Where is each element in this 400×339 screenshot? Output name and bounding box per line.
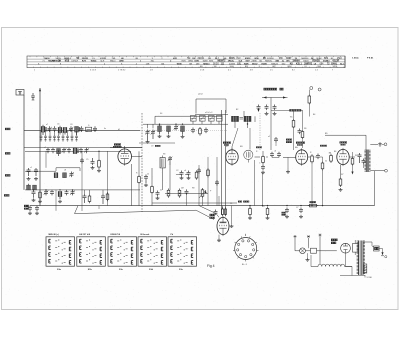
svg-text:W167: W167 [252, 63, 258, 65]
ground G10 [287, 170, 289, 172]
svg-text:WB4: WB4 [287, 66, 291, 68]
svg-text:R5H3B: R5H3B [312, 61, 320, 63]
resistor R2b [88, 196, 91, 201]
inductor L3 [63, 128, 67, 133]
label EL84 [340, 141, 348, 143]
aux antenna arrow [39, 88, 41, 206]
dial scale row line 1 [27, 58, 345, 60]
capacitor C30 [157, 191, 159, 193]
svg-text:a1 b2 c3: a1 b2 c3 [205, 112, 212, 114]
wire screen [352, 152, 354, 157]
wire row2 main [25, 150, 131, 152]
capacitor C44 [299, 129, 301, 131]
inductor L1 with core [41, 127, 45, 133]
capacitor C43 [274, 105, 276, 107]
wire link C [107, 151, 109, 205]
svg-text:a2: a2 [268, 136, 270, 138]
wire af line [152, 202, 237, 204]
svg-text:K5R9: K5R9 [245, 58, 251, 60]
svg-text:Fig 4: Fig 4 [207, 264, 215, 268]
ground G3 [92, 166, 94, 168]
resistor R4 [151, 187, 154, 193]
wire ps bottom [340, 275, 365, 277]
svg-text:8 2: 8 2 [292, 70, 295, 72]
wire af coupling [308, 156, 310, 158]
wire eye lead 1 [75, 206, 79, 214]
svg-text:1M99H: 1M99H [292, 61, 300, 63]
svg-text:B6: B6 [334, 151, 336, 153]
inductor L12 [158, 126, 162, 132]
svg-text:H39K: H39K [261, 63, 267, 65]
wire link E [198, 165, 200, 206]
resistor R14 [308, 96, 311, 103]
label EF85 [223, 142, 231, 144]
svg-text:5k: 5k [325, 160, 327, 162]
svg-text:M44: M44 [230, 66, 234, 68]
capacitor C35 [262, 165, 264, 167]
wire V1 plate [124, 146, 126, 149]
svg-text:01: 01 [86, 131, 88, 133]
wire row2 top [24, 147, 142, 149]
tuning gang left side [141, 113, 143, 212]
svg-text:1: 1 [34, 70, 35, 72]
wire main bus B+ [30, 205, 375, 207]
svg-text:1M: 1M [329, 153, 332, 155]
wire link G [216, 157, 218, 206]
wire link H [254, 160, 256, 206]
wire row1 dotted extension [140, 130, 228, 132]
IF transformer T1 [232, 116, 239, 121]
svg-text:R1: R1 [230, 203, 232, 205]
trimmer C4 [70, 126, 72, 128]
svg-text:4 1: 4 1 [228, 70, 231, 72]
variable capacitor C29 [169, 156, 171, 158]
dial scale row line 3 [27, 64, 345, 66]
wire IF shield dashed [259, 113, 261, 150]
tube V6 rectifier [341, 243, 351, 253]
label EM80 [210, 214, 215, 216]
svg-text:1 8: 1 8 [150, 70, 153, 72]
resistor R9 [311, 156, 314, 162]
screen resistor R13 [351, 159, 354, 165]
label det [320, 145, 327, 147]
inductor L13 [167, 126, 171, 132]
output transformer T3 [365, 150, 367, 173]
ground G13 [307, 258, 309, 260]
svg-text:23MK: 23MK [251, 61, 257, 63]
wire gang top [195, 114, 228, 116]
svg-text:LM7: LM7 [272, 66, 276, 68]
resistor R2 [39, 192, 42, 198]
svg-text:c4: c4 [184, 170, 186, 172]
inductor L7 [54, 173, 58, 178]
svg-text:5B9S: 5B9S [55, 58, 61, 60]
svg-text:31S7: 31S7 [286, 58, 292, 60]
wire mid link line [139, 142, 175, 144]
wire R1 drop [98, 151, 100, 158]
capacitor C41 [379, 142, 381, 147]
wire row3 [25, 189, 140, 191]
dial scale ticks [30, 56, 344, 68]
capacitor C1 antenna [32, 93, 34, 96]
junction dots row1 [49, 130, 50, 131]
capacitor C21d [29, 206, 31, 208]
wire lamp drops [294, 238, 296, 247]
svg-text:1.014x: 1.014x [352, 57, 359, 60]
junction right [311, 205, 312, 206]
dropper resistor R22 [363, 264, 366, 273]
svg-text:MMK46: MMK46 [301, 58, 309, 60]
svg-text:KW-B·P·B: KW-B·P·B [111, 234, 121, 236]
wire V2 top [231, 147, 233, 150]
svg-text:B—1: B—1 [242, 264, 248, 266]
wire mid bus [143, 123, 228, 125]
junction dots row3 [33, 189, 34, 190]
resistor R18 [266, 209, 269, 215]
trimmer C12 [86, 148, 88, 150]
tube shield V2b [244, 150, 253, 159]
svg-text:L8L: L8L [237, 63, 242, 65]
ground G2 [98, 169, 100, 171]
grid resistor R11 [330, 156, 333, 162]
inductor L14 [181, 126, 185, 132]
wire osc row [155, 115, 222, 117]
svg-text:W6W: W6W [177, 63, 182, 65]
wire right mid [293, 110, 295, 118]
svg-text:KSL1: KSL1 [296, 63, 303, 65]
wire link B [81, 151, 83, 211]
svg-text:B4HL: B4HL [331, 62, 338, 65]
wire osc feedback loop [195, 99, 197, 114]
svg-text:C6: C6 [57, 124, 59, 126]
terminal circle TP1 [310, 87, 313, 90]
dial scale row line 2 [27, 61, 345, 63]
tube socket diagram B1 [233, 234, 258, 262]
svg-text:76436: 76436 [44, 57, 51, 60]
svg-text:1 5: 1 5 [270, 70, 273, 72]
svg-text:L8: L8 [304, 66, 306, 68]
ground G5 [33, 198, 35, 200]
svg-text:WRS: WRS [333, 66, 338, 68]
capacitor C46 [286, 208, 288, 210]
svg-text:8: 8 [259, 66, 260, 68]
svg-text:M18: M18 [65, 61, 70, 63]
capacitor C8 [52, 148, 54, 150]
capacitor C37 [278, 152, 280, 154]
wire rectifier cathode [345, 253, 347, 266]
svg-text:5R: 5R [76, 58, 79, 60]
label R2 100k [286, 139, 292, 141]
svg-text:2R62L: 2R62L [228, 61, 235, 63]
trimmer C28 [217, 116, 223, 122]
ground G4 [28, 177, 30, 179]
capacitor C48 [215, 210, 217, 212]
svg-text:c6: c6 [274, 151, 276, 153]
mains plug terminal [381, 255, 384, 257]
svg-text:2R241: 2R241 [197, 58, 204, 60]
svg-text:S8: S8 [163, 154, 165, 156]
svg-text:7: 7 [332, 70, 333, 72]
svg-text:42R: 42R [173, 57, 177, 60]
svg-text:V2: V2 [226, 146, 228, 148]
ground G11 [340, 188, 342, 190]
wire link F [207, 157, 209, 206]
switch wafer S1d [138, 234, 167, 271]
svg-text:L8: L8 [64, 170, 66, 172]
switch wafer S1c [108, 234, 137, 271]
label osc [155, 145, 161, 147]
wire avc row [176, 174, 182, 176]
capacitor C14 [28, 168, 30, 170]
trimmer C26 [200, 116, 206, 122]
label R560 [238, 201, 242, 203]
cathode resistor R12 [339, 179, 342, 185]
wire eye right [231, 206, 233, 224]
svg-text:25LK: 25LK [337, 58, 343, 60]
svg-text:2K: 2K [311, 58, 314, 60]
wire heater left [310, 255, 312, 267]
fuse box [353, 244, 358, 253]
wire r14 down [308, 105, 310, 117]
tube V1 ECH81 [118, 149, 132, 164]
capacitor C45b [258, 105, 260, 107]
svg-text:R8: R8 [192, 188, 194, 190]
ground G6 [159, 135, 161, 137]
svg-text:S1b: S1b [88, 269, 93, 271]
svg-text:HILVERSUM: HILVERSUM [48, 61, 61, 63]
svg-text:V 930: V 930 [367, 277, 373, 279]
capacitor C33 [188, 171, 190, 173]
svg-text:HWLRL: HWLRL [265, 61, 273, 63]
svg-text:5n: 5n [160, 190, 162, 192]
band label PU [4, 194, 9, 196]
resistor R17 [249, 209, 252, 215]
inductor L9 [27, 185, 31, 190]
ground G9 [262, 171, 264, 173]
svg-text:C8: C8 [70, 124, 72, 126]
svg-text:5SW: 5SW [194, 61, 199, 63]
trimmer C27 [209, 116, 215, 122]
wire eye feed [218, 196, 220, 206]
resistor R6 [167, 190, 170, 196]
svg-text:C2: C2 [176, 170, 178, 172]
capacitor C36 [271, 152, 273, 154]
capacitor C47 [300, 208, 302, 210]
svg-text:WB2: WB2 [188, 61, 194, 63]
label EABC80 [296, 142, 305, 144]
capacitor C19 [51, 190, 53, 192]
wire V1 to gang [132, 156, 143, 158]
wire speaker line [370, 170, 384, 172]
capacitor C13 [92, 160, 94, 162]
svg-text:MBM72: MBM72 [218, 61, 227, 63]
svg-text:1k: 1k [147, 174, 149, 176]
capacitor C28c [205, 128, 207, 130]
capacitor C28b [192, 128, 194, 130]
capacitor C40 [363, 159, 365, 161]
dial scale frame [27, 56, 345, 68]
svg-text:13R: 13R [146, 63, 150, 65]
terminal circle TP2 [318, 88, 321, 91]
switch wafer S1b [77, 234, 106, 271]
resistor R5 [195, 172, 198, 178]
inductor L4 with core [75, 127, 79, 133]
inductor L8 [63, 173, 67, 178]
resistor R8 [262, 157, 265, 163]
svg-text:K4: K4 [160, 113, 162, 115]
band label MW [5, 128, 10, 130]
svg-text:5M: 5M [187, 58, 190, 60]
wire link D [55, 190, 57, 211]
wire bracket row2b [56, 167, 80, 169]
ground G8 [181, 176, 183, 178]
svg-text:P 8 41: P 8 41 [367, 57, 374, 60]
wire right boundary [374, 171, 376, 206]
coupling capacitor C39 [359, 153, 361, 155]
inductor L10 [33, 185, 37, 190]
tube V4 EL84 [337, 149, 349, 164]
trimmer C24 [175, 125, 177, 127]
tube V5 EM80 magic eye [217, 217, 229, 234]
svg-text:1 4: 1 4 [315, 70, 318, 72]
svg-text:2M: 2M [181, 188, 184, 190]
mains transformer T4 [358, 241, 360, 276]
wire row2b [25, 170, 56, 172]
svg-text:1 5 8: 1 5 8 [200, 70, 204, 72]
capacitor C15 [35, 168, 37, 170]
svg-text:B89: B89 [324, 58, 329, 60]
capacitor C11 [80, 148, 82, 150]
junction det [168, 193, 169, 194]
resistor R15 [292, 121, 295, 128]
switch label S2 block [24, 205, 29, 207]
capacitor C20 [66, 190, 68, 192]
svg-text:5LR: 5LR [100, 61, 104, 63]
svg-text:9M6: 9M6 [317, 66, 321, 68]
antenna terminal box [16, 90, 24, 96]
junction mid [159, 124, 160, 125]
capacitor C32 [181, 171, 183, 173]
heater terminal x2 [307, 236, 310, 238]
speaker terminal [385, 169, 388, 172]
svg-text:a7: a7 [46, 124, 48, 126]
wire link I [262, 173, 264, 206]
capacitor C7 [47, 148, 49, 150]
wire speaker line2 [370, 143, 378, 145]
speaker terminal 2 [384, 143, 387, 146]
svg-text:S1d: S1d [149, 269, 154, 271]
svg-text:R5R: R5R [182, 61, 187, 63]
svg-text:3M: 3M [214, 66, 217, 68]
capacitor C38 [317, 154, 319, 156]
inductor L5 [57, 149, 61, 154]
wire osc drops [192, 121, 194, 124]
label B plus [264, 88, 278, 91]
svg-text:B4: B4 [313, 114, 315, 116]
capacitor C45 [275, 137, 277, 139]
switch wafer S1e [168, 234, 197, 271]
variable capacitor C22 [147, 130, 149, 132]
resistor R7 [178, 190, 181, 196]
tube V3 EABC80 [296, 150, 308, 164]
band label KW [5, 174, 10, 176]
inductor L6 with core [73, 148, 77, 154]
svg-text:3 8: 3 8 [250, 70, 253, 72]
resistor R10 [321, 163, 324, 169]
svg-text:c2: c2 [44, 147, 46, 149]
wire KW drops [84, 190, 86, 194]
inductor L2 [58, 128, 62, 133]
svg-text:B2: B2 [236, 109, 238, 111]
ground G12 [218, 239, 220, 241]
dial scale right cap [344, 56, 346, 68]
junction bus dots [249, 205, 250, 206]
svg-text:V1: V1 [119, 147, 121, 149]
heater terminal x1 [294, 236, 297, 238]
capacitor C21e [36, 206, 38, 208]
wire osc verticals [131, 164, 133, 206]
wire link A [45, 151, 47, 168]
resistor R21 [224, 209, 226, 214]
switch wafer S1a [46, 234, 75, 271]
tube V2 EBF89 [226, 150, 238, 164]
svg-text:c1: c1 [30, 167, 32, 169]
svg-text:W4R: W4R [244, 62, 249, 65]
trimmer C16 [71, 172, 73, 174]
volume potentiometer P1 [201, 190, 204, 196]
inductor L11 [58, 192, 62, 197]
svg-text:43L2R: 43L2R [332, 60, 339, 63]
svg-text:3 1 5 8: 3 1 5 8 [90, 70, 96, 72]
trimmer C18 [45, 190, 47, 192]
dial lamp LA1 [300, 248, 306, 254]
capacitor C5 [81, 126, 83, 128]
band label LW [5, 152, 10, 154]
switch box D1 [86, 127, 92, 131]
svg-text:R0: R0 [355, 155, 357, 157]
wire b+ feed [262, 97, 288, 99]
wire V4 cathode [340, 165, 342, 177]
svg-text:MW-LW (+): MW-LW (+) [49, 234, 60, 236]
svg-text:M2M: M2M [203, 61, 208, 63]
wire det row [165, 192, 208, 194]
trimmer C21 [72, 190, 74, 192]
capacitor C31 [145, 175, 147, 177]
svg-text:B618: B618 [303, 61, 309, 63]
capacitor C42 [266, 105, 268, 107]
capacitor C21c [102, 194, 104, 196]
capacitor C21b [84, 194, 86, 196]
label ECH81 [114, 143, 121, 145]
wire lamp to rect [317, 250, 337, 252]
wire trafo top [349, 156, 355, 158]
wire antenna lead [23, 95, 25, 190]
wire eye lead 2 [199, 206, 216, 214]
wire if row [255, 156, 261, 158]
trimmer C2 [49, 126, 51, 128]
resistor R1 [98, 161, 101, 168]
row1 padder capacitors to ground [40, 131, 78, 142]
svg-text:R6: R6 [304, 128, 306, 130]
svg-text:R7: R7 [341, 174, 343, 176]
wire row1 bus [24, 130, 140, 132]
capacitor C6 [94, 126, 96, 128]
wire bus verticals [98, 206, 100, 209]
resistor R16 [301, 132, 304, 138]
svg-text:86WL1: 86WL1 [64, 58, 72, 60]
svg-text:LW5LH: LW5LH [71, 61, 78, 63]
label IF unit [256, 146, 262, 148]
